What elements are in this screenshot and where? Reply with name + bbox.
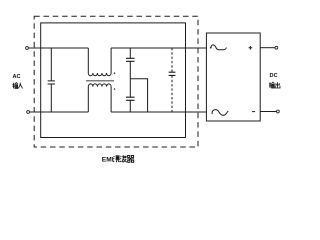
wire Y-cap midpoint to bottom line <box>130 79 147 112</box>
plus sign <box>249 46 253 50</box>
wire bottom line N <box>29 111 206 113</box>
common-mode choke L1 bottom winding <box>88 87 111 112</box>
rectifier module box <box>206 33 260 121</box>
svg-text:AC: AC <box>12 74 20 80</box>
capacitor CY2 bottom leads <box>129 79 131 112</box>
AC sine symbol bottom <box>212 110 228 116</box>
EMI filter dashed boundary box <box>34 16 198 147</box>
glyph 器 <box>127 156 134 163</box>
capacitor CY1 top leads <box>129 48 131 79</box>
common-mode choke L1 top winding <box>88 48 111 73</box>
choke polarity dot top <box>114 72 116 74</box>
terminal DC bottom <box>277 110 280 113</box>
glyph 输 <box>269 82 274 88</box>
svg-text:DC: DC <box>270 73 278 79</box>
glyph 滤 <box>113 155 120 162</box>
glyph 入 <box>18 83 22 89</box>
glyph 波 <box>120 155 127 162</box>
wire DC output bottom <box>260 111 277 113</box>
choke polarity dot bottom <box>114 88 116 90</box>
wire top line L <box>28 47 206 49</box>
capacitor CX plates <box>169 72 176 75</box>
terminal AC bottom <box>27 111 30 114</box>
AC sine symbol top <box>211 45 227 50</box>
terminal AC top <box>26 47 29 50</box>
glyph 出 <box>275 82 280 88</box>
label 输入 (vector glyphs) <box>12 83 22 89</box>
capacitor C1 leads <box>50 48 52 112</box>
capacitor CY2 plates <box>126 97 135 100</box>
capacitor C1 plates <box>48 81 55 84</box>
glyph 输 <box>12 83 17 89</box>
svg-text:EMI: EMI <box>102 157 114 164</box>
choke core <box>86 80 114 82</box>
wire DC output top <box>260 47 275 49</box>
minus sign <box>252 111 255 113</box>
EMI filter inner solid box <box>41 23 186 138</box>
terminal DC top <box>275 46 278 49</box>
label 输出 (vector glyphs) <box>269 82 280 88</box>
capacitor CX dashed leads <box>171 48 173 112</box>
capacitor CY1 plates <box>126 58 135 61</box>
